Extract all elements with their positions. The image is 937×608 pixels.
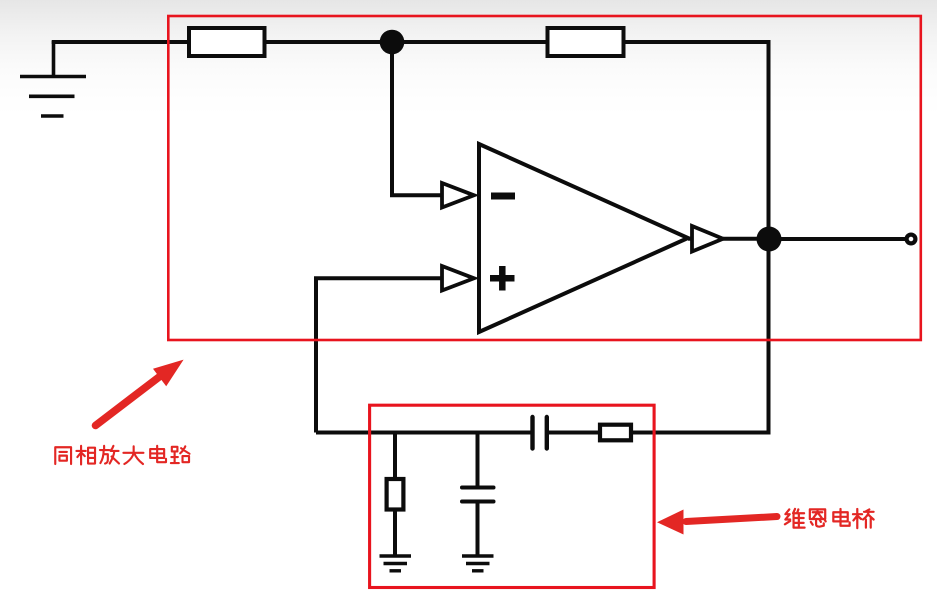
resistor R1 [189, 28, 265, 56]
ground [20, 41, 86, 116]
node junction B (output) [757, 227, 782, 252]
wire R1 to node [265, 40, 393, 44]
region box: Wien bridge [370, 405, 654, 587]
resistor R3 (series) [600, 425, 631, 441]
capacitor C1 (series) [533, 417, 547, 449]
input arrow non-inverting [442, 266, 474, 291]
label 同相放大电路 (hand-drawn glyphs) [55, 446, 189, 465]
output buffer arrow [688, 237, 692, 241]
glyph 路 [171, 446, 190, 463]
wire buffer to output node [723, 237, 769, 241]
wire to non-inverting input [316, 278, 442, 432]
wire output node to terminal [769, 237, 908, 241]
output terminal [907, 235, 916, 244]
op-amp U1 [479, 144, 688, 332]
resistor R4 (shunt) [387, 479, 404, 510]
input arrow inverting [442, 183, 474, 208]
glyph 放 [100, 446, 119, 464]
glyph 电 [833, 509, 849, 526]
wire bottom feedback left segment [316, 431, 533, 435]
glyph 维 [785, 509, 805, 528]
glyph 同 [55, 447, 71, 464]
wire C2 to ground [476, 502, 480, 557]
wire R3 to right rail [631, 431, 771, 435]
annotation arrow to amplifier box [96, 360, 184, 426]
wire node down to inverting input [392, 42, 442, 195]
annotation arrow to Wien bridge box [657, 510, 777, 535]
wire node to R2 [392, 40, 548, 44]
glyph 大 [123, 446, 143, 464]
op-amp plus sign [490, 275, 515, 282]
wire ground to R1 [52, 40, 189, 44]
node junction A (top) [380, 30, 405, 55]
wire right rail vertical [767, 40, 771, 433]
wire R4 to ground [393, 510, 397, 557]
wire R2 to right rail [624, 40, 769, 44]
resistor R2 [548, 28, 624, 56]
region box: non-inverting amplifier [168, 16, 921, 340]
wire cap to R3 [547, 431, 600, 435]
glyph 相 [76, 446, 95, 465]
ground under C2 [462, 556, 494, 571]
capacitor C2 (shunt) [462, 488, 494, 502]
wire stub to C2 [476, 433, 480, 488]
label 维恩电桥 (hand-drawn glyphs) [785, 509, 874, 528]
wire stub to R4 [393, 433, 397, 480]
ground under R4 [380, 556, 412, 571]
glyph 恩 [810, 509, 826, 526]
op-amp minus sign [491, 193, 515, 200]
glyph 电 [150, 446, 166, 462]
glyph 桥 [853, 509, 874, 528]
